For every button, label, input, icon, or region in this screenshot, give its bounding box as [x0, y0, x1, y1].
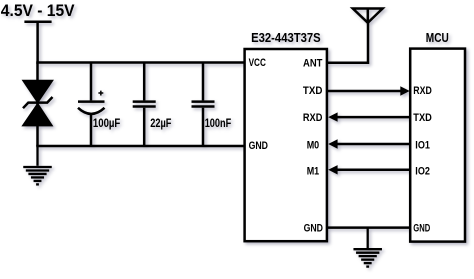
wire RXD to TXD with arrow [328, 112, 410, 121]
svg-text:IO2: IO2 [415, 165, 430, 177]
svg-text:TXD: TXD [303, 85, 323, 97]
module U1 E32-443T37S box [245, 49, 327, 241]
svg-text:GND: GND [249, 140, 268, 152]
svg-text:RXD: RXD [303, 112, 323, 124]
capacitor C2 22µF [133, 63, 172, 147]
wire TXD to RXD with arrow [327, 86, 410, 95]
svg-text:GND: GND [304, 222, 323, 234]
svg-text:MCU: MCU [426, 30, 449, 45]
svg-text:ANT: ANT [303, 57, 323, 69]
svg-text:RXD: RXD [413, 85, 432, 97]
power terminal bar [24, 21, 51, 24]
svg-text:VCC: VCC [249, 57, 266, 69]
wire GND to GND [327, 226, 410, 229]
wire GND rail [36, 145, 246, 148]
wire diode branch vertical [36, 63, 39, 147]
wire VCC rail [36, 61, 246, 64]
MCU box [410, 49, 465, 242]
wire power to VCC rail [36, 22, 39, 63]
capacitor C1 100µF (polarized) [78, 63, 120, 147]
svg-text:M1: M1 [307, 165, 320, 177]
TVS diode D1 [22, 80, 53, 126]
svg-text:E32-443T37S: E32-443T37S [251, 30, 321, 45]
wire M0 to IO1 with arrow [328, 139, 410, 148]
capacitor C3 100nF [192, 63, 232, 147]
svg-text:22µF: 22µF [150, 118, 171, 130]
svg-text:GND: GND [413, 222, 430, 234]
ground (left) [23, 146, 52, 184]
svg-text:IO1: IO1 [415, 140, 430, 152]
wire M1 to IO2 with arrow [328, 165, 410, 174]
ground (bottom) [353, 228, 382, 267]
antenna AE1 [353, 9, 383, 23]
wire ANT to antenna [327, 22, 368, 63]
svg-text:100µF: 100µF [93, 118, 120, 130]
svg-text:TXD: TXD [413, 112, 432, 124]
svg-text:100nF: 100nF [205, 118, 232, 130]
svg-text:4.5V - 15V: 4.5V - 15V [1, 2, 75, 20]
svg-text:M0: M0 [307, 140, 320, 152]
